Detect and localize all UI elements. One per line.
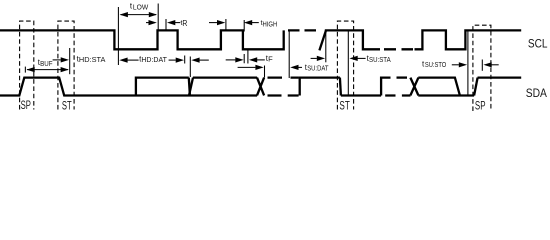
arrow at X1 guide pointing left <box>199 59 209 61</box>
guide line tBUF right / tHD:STA left boundary <box>69 48 71 74</box>
svg-text:SP: SP <box>21 98 31 112</box>
svg-text:ST: ST <box>62 98 72 112</box>
wire SDA dashed top rail (don't care region) <box>268 76 299 78</box>
wire SDA crossing X2 falling edge <box>257 78 264 96</box>
arrow tSU:STA right outside <box>357 57 365 59</box>
svg-text:HD:STA: HD:STA <box>79 55 106 64</box>
wire SDA data transition falling edge (X1) <box>189 78 190 96</box>
wire SCL slanted rising edge (tSU:STA reference) <box>319 30 326 50</box>
arrow tBUF double-headed <box>27 69 68 71</box>
svg-text:SU:STO: SU:STO <box>425 60 446 69</box>
svg-text:SP: SP <box>475 98 486 112</box>
dashed box ST (repeated start, middle) <box>337 21 353 109</box>
guide line tHIGH left boundary <box>225 19 227 30</box>
svg-text:R: R <box>182 19 187 28</box>
arrow tF left outside <box>226 59 236 61</box>
wire SDA data transition rising edge (X1) <box>189 78 193 96</box>
wire SDA dashed bottom rail (don't care region) <box>268 94 299 96</box>
svg-text:SU:STA: SU:STA <box>369 55 391 64</box>
svg-text:HD:DAT: HD:DAT <box>141 55 167 64</box>
svg-text:BUF: BUF <box>40 61 52 68</box>
guide line tF right boundary <box>247 50 249 64</box>
wire SDA ending high rail <box>478 76 522 78</box>
wire SCL final clock pulses and ending high (x=414..521) <box>415 30 522 49</box>
arrow tHIGH left outside <box>209 22 217 24</box>
wire SDA last data cell top rail with slanted fall (tF) <box>418 78 460 96</box>
guide line at SCL falling edge (tLOW/tHD:DAT boundary) <box>117 7 119 65</box>
arrow tHD:STA left outside <box>53 59 61 61</box>
wire SDA crossing X3 rising edge <box>410 78 418 96</box>
guide line tSU:STA left boundary <box>325 31 327 62</box>
arrow tSU:DAT left outside <box>238 66 256 68</box>
arrow tSU:STO left outside <box>452 64 459 66</box>
guide line at SDA data transition X1 <box>189 57 191 78</box>
svg-text:SU:DAT: SU:DAT <box>307 63 329 72</box>
svg-text:HIGH: HIGH <box>263 19 278 28</box>
wire SDA data cell 1 rising edge and top rail <box>136 78 189 96</box>
guide line tSU:STA right boundary (through waveforms) <box>347 32 349 97</box>
guide line tHD:DAT right boundary <box>184 56 186 64</box>
wire SDA data cell 2 top rail <box>193 76 257 78</box>
arrow tR left outside <box>146 22 149 24</box>
wire SDA crossing X2 rising edge <box>257 78 264 96</box>
wire SDA bottom baseline under last data cell <box>418 94 474 96</box>
wire SDA vertical connector and high pulse top to ST box <box>300 78 340 96</box>
guide line tSU:DAT right boundary from SCL high <box>288 32 290 79</box>
dashed box SP (stop condition, left) <box>20 21 34 109</box>
arrow tHD:DAT left inside <box>127 59 138 61</box>
arrow tLOW double-headed <box>121 14 157 16</box>
dashed box ST (start condition, left) <box>58 21 74 109</box>
wire SCL high pulse then fall then low (x=325..380) <box>325 30 380 49</box>
wire SDA low, STOP pulse trapezoid (SP), START fall (ST), low baseline to data cell <box>0 78 257 96</box>
wire SDA dashed bottom rail segment 2 <box>385 94 410 96</box>
guide line tF left boundary at SCL fall <box>243 20 245 63</box>
wire SDA dashed top rail segment 2 <box>397 76 408 78</box>
wire SDA STOP condition rising edge inside SP box <box>474 78 478 96</box>
arrow tSU:DAT right outside <box>298 66 302 68</box>
svg-text:SCL: SCL <box>528 39 548 51</box>
wire SCL low level dashed continuation segment <box>384 48 413 50</box>
guide line tSU:STO right boundary <box>481 60 483 71</box>
guide line tSU:STO left boundary at SCL rise <box>467 31 469 95</box>
guide line tBUF left boundary <box>24 67 26 73</box>
wire SDA rising edge and short top rail <box>381 78 390 96</box>
arrow tF right outside <box>257 59 265 61</box>
wire SCL high level dashed continuation segment <box>288 29 318 31</box>
svg-text:LOW: LOW <box>133 3 149 12</box>
guide line tLOW right / tR left boundary <box>157 4 159 31</box>
wire SDA crossing X3 falling edge <box>410 78 418 96</box>
arrow tSU:STO right outside <box>491 64 498 66</box>
arrow tHD:DAT right inside <box>169 59 176 61</box>
wire SCL clock waveform main solid run (high/low pulses x=0..284) <box>0 30 284 49</box>
svg-text:F: F <box>268 55 273 64</box>
dashed box SP (stop condition, right) <box>473 25 491 111</box>
guide line tR right boundary <box>165 19 167 30</box>
wire SDA START condition falling edge inside ST box <box>340 78 341 96</box>
arrow tSU:STA left outside <box>311 57 317 59</box>
arrow tHIGH right outside <box>252 22 259 24</box>
wire SDA low baseline after repeated START <box>341 94 381 96</box>
arrow tR right outside <box>175 22 180 24</box>
guide line tSU:DAT left boundary at X2 <box>264 66 266 78</box>
svg-text:SDA: SDA <box>526 88 547 100</box>
svg-text:ST: ST <box>339 98 350 112</box>
